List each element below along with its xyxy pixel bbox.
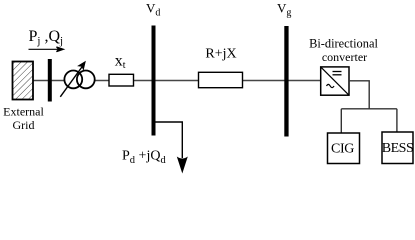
- load arrow P_d+jQ_d: [177, 157, 188, 174]
- svg-text:Bi-directional: Bi-directional: [309, 37, 378, 51]
- wire: external grid to bus B1: [33, 80, 48, 82]
- DC symbol =: [333, 71, 342, 73]
- external grid source: [13, 62, 34, 100]
- transformer T1: [64, 71, 94, 89]
- svg-text:Vg: Vg: [277, 1, 291, 19]
- svg-text:External: External: [3, 105, 44, 119]
- svg-text:Pd +jQd: Pd +jQd: [122, 149, 166, 166]
- svg-text:xt: xt: [115, 53, 126, 71]
- bus V_d: [152, 26, 156, 136]
- svg-text:CIG: CIG: [331, 142, 354, 157]
- AC symbol ~: [327, 84, 335, 87]
- BESS unit: [382, 132, 413, 164]
- svg-text:Vd: Vd: [146, 1, 160, 19]
- wire: converter to DC junction: [349, 81, 369, 109]
- bus B1 (grid bus): [48, 59, 52, 102]
- wire: bus V_g to converter U1: [287, 80, 321, 82]
- svg-text:R+jX: R+jX: [205, 47, 236, 62]
- wire: DC junction horizontal: [341, 108, 397, 110]
- svg-text:Pj ,Qj: Pj ,Qj: [29, 28, 64, 47]
- wire: bus B1 to transformer: [50, 80, 65, 82]
- wire: transformer to reactance x_t: [94, 80, 109, 82]
- resistor R+jX: [199, 72, 243, 87]
- CIG unit: [328, 133, 360, 164]
- wire: junction to BESS: [396, 109, 398, 132]
- svg-text:BESS: BESS: [382, 141, 413, 156]
- converter U1: [321, 67, 349, 95]
- svg-text:converter: converter: [322, 50, 367, 64]
- reactance x_t: [109, 74, 134, 86]
- wire: junction to CIG: [340, 109, 342, 133]
- arrow P_j,Q_j flow: [29, 47, 64, 52]
- wire: bus V_d to resistor R+jX: [154, 80, 199, 82]
- wire: reactance x_t to bus V_d: [133, 80, 153, 82]
- load tap wire from bus V_d: [155, 122, 182, 158]
- bus V_g: [284, 26, 288, 137]
- svg-text:Grid: Grid: [13, 118, 35, 132]
- wire: resistor R+jX to bus V_g: [242, 80, 286, 82]
- transformer tap arrow: [60, 62, 85, 97]
